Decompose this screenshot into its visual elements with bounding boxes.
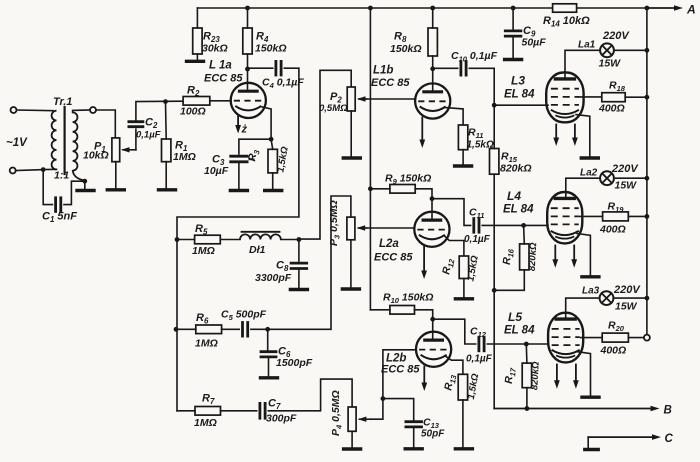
ground: R12 [455, 297, 472, 300]
triode L1b ECC85 [415, 83, 450, 118]
svg-text:C7: C7 [268, 398, 281, 412]
terminal at R20 right end [644, 335, 650, 341]
ground under R23 [187, 60, 204, 63]
wire: R20 to terminal [628, 337, 644, 339]
svg-text:400Ω: 400Ω [598, 103, 625, 115]
potentiometer P4 0.5M [348, 407, 356, 431]
potentiometer P1 10k [112, 138, 120, 162]
resistor R10 150k [390, 306, 415, 315]
resistor R17 820k [522, 363, 531, 388]
capacitor C3 10uF electrolytic [231, 155, 247, 158]
svg-text:C1 5nF: C1 5nF [42, 211, 77, 225]
wire: L4 anode to La2 [566, 178, 600, 198]
junction L2a anode / C11 line [430, 196, 435, 201]
ground: C9 [505, 58, 522, 61]
wire: R2 to L1a grid [210, 100, 231, 102]
heater arrows L3 [555, 125, 557, 140]
wire: C line to ground [587, 437, 589, 448]
svg-text:Tr.1: Tr.1 [53, 96, 72, 108]
junction Dt1 / C8 / P2-line [297, 237, 302, 242]
wire: L5 cathode to ground [578, 352, 591, 396]
wire: left feedback bus [176, 240, 178, 411]
svg-text:1MΩ: 1MΩ [173, 151, 196, 163]
wire: P1 bottom to ground [115, 162, 117, 189]
ground: L3 cathode [581, 156, 598, 159]
junction R17 bottom / B line [525, 406, 530, 411]
wire: C8 lead [298, 240, 300, 262]
svg-text:0,5MΩ: 0,5MΩ [319, 103, 348, 114]
svg-text:50µF: 50µF [522, 37, 547, 49]
heater arrow L1a with z-dot label [237, 116, 239, 127]
wire: P4 bottom to ground [351, 431, 353, 447]
junction L4 grid / R16 [521, 223, 526, 228]
svg-text:220V: 220V [602, 30, 630, 42]
junction L5 grid / R17 [524, 342, 529, 347]
wire: L2b grid to P4 junction [383, 350, 416, 399]
resistor R12 1.5k [459, 256, 468, 279]
wire: L1a cathode to junction [261, 107, 272, 140]
ground: R11 [455, 164, 472, 167]
svg-text:220V: 220V [613, 284, 641, 296]
svg-text:ECC 85: ECC 85 [374, 252, 413, 264]
svg-text:1MΩ: 1MΩ [192, 245, 215, 257]
svg-text:300pF: 300pF [266, 413, 297, 425]
svg-text:820kΩ: 820kΩ [500, 163, 532, 175]
svg-text:R16: R16 [501, 247, 516, 265]
wire: La3 to right bus [614, 297, 647, 299]
capacitor C10 0.1uF [459, 62, 462, 76]
P2 wiper arrow [359, 98, 367, 100]
wire: junction to P3 top [268, 196, 351, 329]
wire: C4 right down to feedback line [177, 68, 299, 239]
resistor R20 400 [602, 333, 628, 342]
triode L2b ECC85 [416, 332, 451, 367]
wire: R18 to right bus [625, 96, 647, 98]
capacitor C6 1500pF [267, 329, 269, 351]
wire: R9 to L2a anode [415, 189, 432, 199]
svg-text:1MΩ: 1MΩ [194, 417, 217, 429]
wire: L4 cathode to ground [577, 234, 590, 276]
svg-text:820kΩ: 820kΩ [529, 361, 542, 391]
wire: C11 to L4 grid [482, 224, 548, 226]
junction L1a anode / C4 [245, 67, 250, 72]
svg-text:0,1µF: 0,1µF [136, 130, 161, 141]
svg-text:R7: R7 [202, 393, 215, 407]
resistor R9 150k [390, 185, 415, 194]
svg-text:C12: C12 [470, 326, 487, 340]
svg-text:100Ω: 100Ω [180, 106, 206, 118]
svg-text:La3: La3 [582, 286, 600, 297]
svg-text:L4: L4 [507, 189, 521, 203]
svg-text:R18: R18 [609, 80, 626, 94]
resistor R14 10k (inline top bus) [553, 4, 577, 12]
svg-text:EL 84: EL 84 [504, 325, 535, 337]
wire: L3 control grid from junction [494, 104, 548, 106]
svg-text:1500pF: 1500pF [276, 357, 313, 369]
node B output arrow [494, 408, 650, 410]
wire: P4 wiper to L2b grid line [370, 399, 383, 420]
wire: junction to C10 [433, 67, 458, 69]
transformer core [63, 107, 65, 174]
junction right bus / La1 [645, 48, 650, 53]
svg-text:R19: R19 [608, 201, 625, 215]
resistor R11 1.5k [458, 125, 467, 150]
svg-text:C10 0,1µF: C10 0,1µF [451, 50, 498, 64]
junction L1b anode / R8 / C10 [430, 66, 435, 71]
potentiometer P2 0.5M [347, 87, 355, 111]
svg-text:La1: La1 [578, 40, 596, 51]
junction R1 top [163, 99, 168, 104]
ground: C3 [230, 189, 247, 192]
ground: C13 [405, 447, 422, 450]
svg-text:50pF: 50pF [421, 429, 445, 440]
wire: P2 bottom to ground [350, 111, 352, 157]
svg-text:R20: R20 [608, 320, 625, 334]
resistor R6 1M [196, 325, 222, 334]
svg-text:A: A [686, 3, 696, 17]
junction L2b grid / P4 / C13 [381, 396, 386, 401]
svg-text:ECC 85: ECC 85 [381, 364, 420, 376]
ground: C output [585, 448, 598, 451]
ground: P3 [342, 287, 359, 290]
svg-text:ż: ż [241, 124, 248, 136]
wire: junction to C3 [239, 139, 271, 154]
capacitor C1 5nF [54, 198, 57, 212]
pentode L3 EL84 [546, 73, 583, 123]
wire: anode junction to C4 [248, 67, 273, 69]
wire: R7 to C7 [221, 410, 257, 412]
svg-text:1:1: 1:1 [54, 170, 69, 182]
svg-text:C11: C11 [469, 207, 484, 221]
junction right bus / La2 [645, 176, 650, 181]
resistor R7 1M [195, 407, 221, 416]
wire: C2 top to grid line [136, 101, 183, 122]
wire: C7 to P4 top [268, 379, 352, 411]
wire: R4 to L1a anode [247, 69, 249, 92]
resistor R15 820k [490, 149, 499, 175]
wire: junction down to C1 [43, 170, 52, 205]
svg-text:15W: 15W [615, 301, 638, 313]
svg-text:La2: La2 [580, 168, 598, 179]
resistor R4 150k [243, 28, 252, 54]
svg-text:0,1µF: 0,1µF [466, 354, 493, 365]
junction bias bus / R16 bottom [492, 288, 497, 293]
wire: L4 screen grid to R19 [580, 215, 603, 217]
lamp La3 220V 15W [600, 291, 614, 305]
wire: R10 to L2b anode junction [415, 310, 433, 319]
heater arrows L5 [556, 365, 558, 382]
pentode L4 EL84 [547, 192, 582, 243]
wire: L2b anode junction to C12 [433, 319, 476, 344]
wire: long supply vertical to R9/R10 [369, 8, 371, 310]
transformer right winding [73, 112, 78, 170]
potentiometer P3 0.5M [347, 217, 355, 240]
resistor R8 150k [428, 28, 437, 56]
svg-text:C2: C2 [145, 117, 158, 131]
capacitor C5 500pF [241, 323, 244, 337]
svg-text:C4 0,1µF: C4 0,1µF [262, 77, 304, 91]
junction top bus / R4 [245, 6, 250, 11]
wire: L5 anode to La3 [566, 298, 600, 319]
wire: C5 to junction [251, 328, 268, 330]
wire: bias bus R15 down to B line [493, 174, 495, 408]
svg-text:L 1a: L 1a [209, 60, 232, 72]
svg-text:L2a: L2a [379, 238, 399, 250]
node: transformer ground junction [82, 179, 87, 184]
svg-text:R12: R12 [440, 257, 456, 276]
svg-text:C: C [665, 433, 674, 445]
svg-text:R3: R3 [246, 148, 262, 163]
resistor R18 400 [602, 93, 625, 102]
ground: L4 cathode [582, 275, 599, 278]
svg-text:L3: L3 [511, 74, 525, 88]
wire: L2b cathode to R13 [446, 357, 463, 375]
heater arrows L4 [554, 246, 556, 261]
svg-text:R11: R11 [468, 127, 483, 141]
wire: P2 wiper to L1b grid [367, 98, 416, 100]
svg-text:P3 0,5MΩ: P3 0,5MΩ [328, 200, 342, 246]
junction C5 / C6 [265, 327, 270, 332]
ground: transformer [77, 189, 94, 192]
svg-text:15W: 15W [599, 58, 622, 70]
svg-text:R6: R6 [196, 312, 209, 326]
svg-text:B: B [664, 405, 672, 417]
svg-text:EL 84: EL 84 [504, 89, 535, 101]
P3 wiper arrow [359, 227, 367, 229]
svg-text:150kΩ: 150kΩ [255, 43, 287, 55]
ground: C6 [261, 376, 278, 379]
svg-text:R10 150kΩ: R10 150kΩ [383, 292, 433, 306]
svg-text:R14 10kΩ: R14 10kΩ [543, 15, 590, 29]
svg-text:R17: R17 [503, 366, 518, 384]
wire: L2a anode junction to C11 [432, 199, 471, 226]
wire: L3 screen grid to R18 [579, 96, 602, 98]
svg-text:P4 0,5MΩ: P4 0,5MΩ [330, 390, 344, 436]
resistor R2 100 [183, 97, 210, 106]
svg-text:EL 84: EL 84 [503, 204, 534, 216]
wire: L2a cathode to R12 [445, 236, 464, 256]
svg-text:C5 500pF: C5 500pF [221, 309, 267, 323]
ground: P1 [107, 188, 124, 191]
svg-text:3300pF: 3300pF [255, 272, 292, 284]
wire: C1 to secondary-bottom node [64, 181, 85, 204]
junction right bus / R18 [645, 95, 650, 100]
junction L1a cathode network [269, 137, 274, 142]
wire: P3 wiper to L2a grid [367, 227, 415, 229]
svg-text:R9 150kΩ: R9 150kΩ [385, 173, 431, 187]
ground: P4 [344, 447, 361, 450]
junction left bus / R5 row [175, 237, 180, 242]
wire: R6 to C5 [222, 328, 240, 330]
lamp La1 220V 15W [600, 43, 614, 57]
capacitor C9 50uF [512, 8, 514, 31]
heater arrow L2a [423, 246, 425, 272]
terminal secondary [90, 107, 96, 113]
svg-text:220V: 220V [611, 163, 639, 175]
resistor R23 30k [193, 28, 202, 54]
wire: La2 to right bus [614, 177, 647, 179]
capacitor C2 0.1uF [129, 120, 143, 123]
wire: R19 to right bus [628, 215, 647, 217]
resistor R5 1M [195, 235, 221, 244]
capacitor C7 300pF [258, 403, 261, 418]
junction top bus / R8 [430, 6, 435, 11]
wire: junction up-jog to P2 top line [299, 70, 351, 239]
lamp La2 220V 15W [600, 171, 614, 185]
inductor Dl1 choke [220, 239, 240, 241]
svg-text:10kΩ: 10kΩ [83, 150, 109, 162]
wire: top supply bus [197, 7, 552, 9]
svg-text:1MΩ: 1MΩ [195, 338, 218, 350]
svg-text:R2: R2 [187, 85, 200, 99]
P4 wiper arrow [360, 418, 371, 420]
wire: L3 cathode to ground [576, 115, 590, 157]
wire: right vertical bus [646, 8, 648, 334]
wire: secondary top to terminal [73, 110, 90, 112]
resistor R13 1.5k [458, 374, 467, 400]
junction left bus / R6 row [174, 327, 179, 332]
resistor R1 1M [162, 139, 171, 162]
svg-text:15W: 15W [615, 180, 638, 192]
junction L3 grid / R15 [492, 103, 497, 108]
junction L2b anode / C12 line [430, 317, 435, 322]
wire: L3 anode to La1 [565, 50, 600, 79]
triode L1a ECC85 [231, 83, 266, 118]
svg-text:400Ω: 400Ω [600, 345, 627, 357]
wire: La1 to right bus [614, 49, 647, 51]
junction right bus / R19 [645, 214, 650, 219]
svg-text:R5: R5 [195, 223, 208, 237]
svg-text:R13: R13 [442, 373, 458, 392]
wire: C10 right to L3 grid junction [469, 68, 494, 105]
svg-text:~1V: ~1V [6, 137, 28, 149]
junction supply vertical / R9 [368, 186, 373, 191]
wire: R8 junction to anode [432, 69, 434, 92]
ground: R1 [159, 188, 176, 191]
ground: R3 [265, 189, 282, 192]
wire: P1 wiper to C2 [135, 129, 137, 150]
resistor R3 1.5k [268, 149, 277, 173]
heater arrow L1b [421, 118, 423, 142]
wire: primary bottom junction [43, 168, 56, 170]
svg-text:150kΩ: 150kΩ [390, 43, 422, 55]
wire: Dt1 to junction [281, 239, 299, 241]
wire: junction to C13 [383, 399, 414, 422]
P1 wiper arrow [123, 149, 136, 151]
wire: secondary bottom to node [73, 170, 85, 181]
svg-text:820kΩ: 820kΩ [527, 242, 540, 272]
heater arrow L2b [423, 367, 425, 385]
junction right bus / La3 [645, 296, 650, 301]
wire: terminal to P1 top [96, 110, 115, 138]
svg-text:L1b: L1b [373, 65, 393, 77]
junction top bus / long supply line [368, 6, 373, 11]
svg-text:ECC 85: ECC 85 [371, 77, 410, 89]
svg-text:10µF: 10µF [204, 165, 229, 177]
pentode L5 EL84 [548, 313, 583, 363]
ground: C8 [290, 288, 307, 291]
node C output arrow [588, 436, 651, 438]
input terminal upper [11, 107, 17, 113]
capacitor C13 50pF [406, 420, 422, 423]
wire: P3 bottom to ground [350, 240, 352, 288]
input terminal lower [10, 168, 16, 174]
ground: L5 cathode [582, 396, 599, 399]
junction top bus / C9 [511, 6, 516, 11]
svg-text:0,1µF: 0,1µF [464, 234, 491, 245]
svg-text:L5: L5 [508, 310, 522, 324]
svg-text:30kΩ: 30kΩ [202, 43, 228, 55]
wire: L5 screen grid to R20 [581, 337, 603, 339]
capacitor C11 0.1uF [472, 219, 475, 233]
svg-text:400Ω: 400Ω [599, 224, 626, 236]
triode L2a ECC85 [414, 212, 449, 247]
wire: L1b cathode to R11 [445, 108, 463, 126]
svg-text:ECC 85: ECC 85 [204, 73, 243, 85]
capacitor C12 0.1uF [477, 337, 480, 351]
capacitor C4 0.1uF [274, 61, 277, 75]
ground: R13 [455, 447, 472, 450]
ground: P2 [343, 156, 360, 159]
junction top bus / right bus corner [645, 6, 650, 11]
resistor R16 820k [520, 244, 529, 270]
capacitor C8 3300pF [291, 262, 307, 265]
wire: C12 to L5 grid [487, 343, 548, 345]
node A output arrow [647, 7, 676, 9]
svg-text:Dł1: Dł1 [249, 244, 266, 256]
resistor R19 400 [603, 212, 629, 221]
